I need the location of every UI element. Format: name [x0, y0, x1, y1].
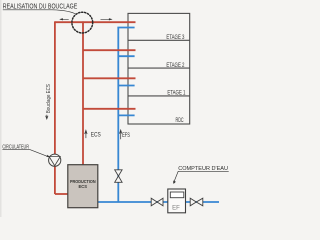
- wire: bouclage bottom horizontal to production: [55, 193, 69, 195]
- wire: EFS branch rdc: [118, 114, 134, 116]
- wire: cold water bottom main pipe: [98, 201, 219, 203]
- label PRODUCTION ECS: [70, 179, 96, 189]
- wire: ECS branch etage 1: [83, 77, 136, 79]
- leader line from title to bouclage junction: [3, 10, 77, 15]
- svg-text:RDC: RDC: [176, 118, 185, 124]
- svg-text:EF: EF: [172, 205, 180, 212]
- wire: EFS riser: [117, 28, 119, 203]
- wire: ECS riser: [82, 21, 84, 165]
- label ECS with up flow arrow: [85, 130, 101, 138]
- water meter display window: [170, 192, 184, 198]
- svg-text:ETAGE 1: ETAGE 1: [167, 91, 186, 97]
- valve right of meter: [190, 198, 203, 206]
- floor divider etage1/rdc: [128, 95, 190, 97]
- water meter box: [168, 189, 186, 213]
- label COMPTEUR D'EAU with leader arrow: [173, 166, 229, 184]
- svg-text:ETAGE 2: ETAGE 2: [166, 63, 185, 69]
- floor divider etage2/etage1: [128, 67, 190, 69]
- flow arrow left (return): [59, 18, 68, 20]
- valve on EFS riser: [115, 170, 122, 183]
- svg-text:EFS: EFS: [122, 133, 130, 139]
- wire: ECS branch etage 2: [83, 49, 136, 51]
- node: bouclage junction dashed circle: [72, 12, 93, 33]
- building outline: [128, 13, 190, 124]
- valve left of meter: [151, 198, 163, 206]
- pump circulateur: [49, 154, 61, 166]
- floor divider etage3/etage2: [128, 39, 190, 41]
- wire: ECS top distribution pipe: [55, 21, 136, 23]
- label CIRCULATEUR with leader arrow: [2, 145, 49, 158]
- svg-text:ECS: ECS: [91, 132, 101, 138]
- wire: EFS top branch etage 3: [118, 27, 134, 30]
- wire: EFS branch etage 2: [118, 55, 134, 57]
- label EFS with up flow arrow: [120, 130, 131, 139]
- flow arrow down on bouclage: [46, 115, 48, 119]
- flow arrow right (supply): [101, 18, 113, 20]
- svg-text:ECS: ECS: [79, 184, 88, 189]
- wire: bouclage vertical return pipe: [54, 21, 56, 194]
- wire: EFS branch etage 1: [118, 85, 134, 87]
- wire: ECS branch rdc: [83, 108, 136, 110]
- production ECS tank: [68, 165, 98, 208]
- svg-text:ETAGE 3: ETAGE 3: [166, 35, 185, 41]
- svg-text:Bouclage ECS: Bouclage ECS: [46, 84, 52, 113]
